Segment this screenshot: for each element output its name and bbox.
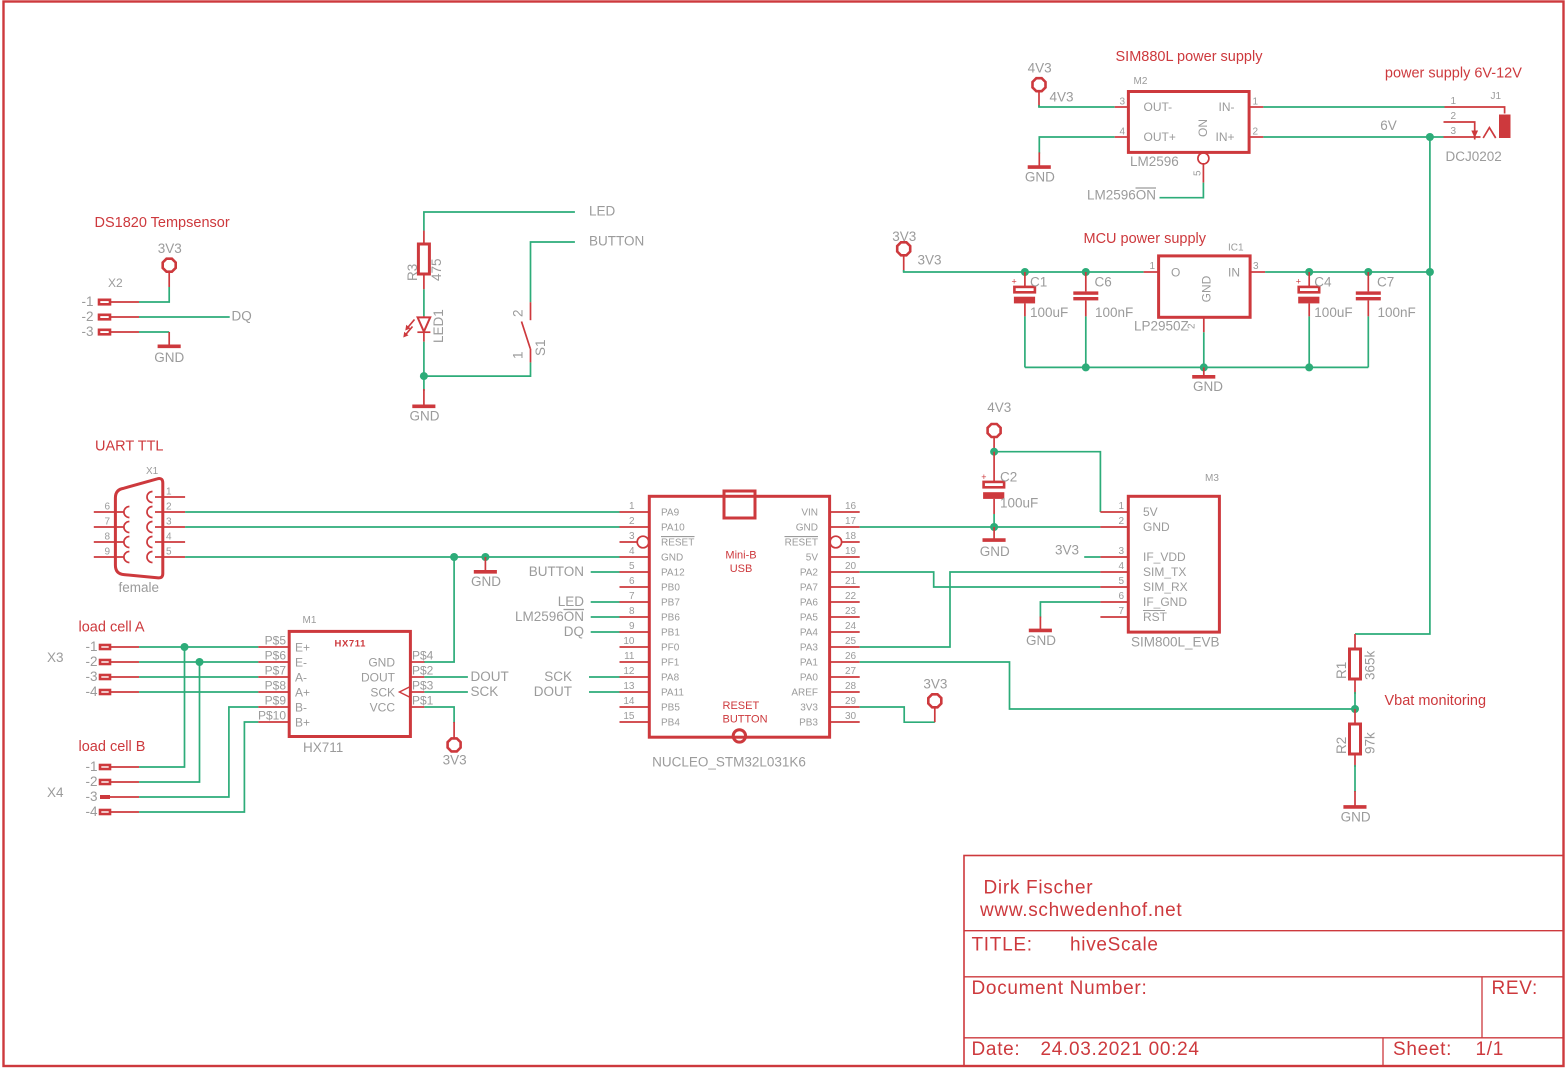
svg-text:475: 475 (429, 258, 444, 281)
svg-text:18: 18 (845, 531, 857, 542)
svg-text:DS1820 Tempsensor: DS1820 Tempsensor (95, 215, 230, 231)
svg-text:P$5: P$5 (265, 634, 287, 648)
svg-text:LED: LED (558, 594, 585, 609)
wire to HX711 GND (424, 557, 454, 662)
svg-text:OUT-: OUT- (1144, 100, 1173, 114)
capacitor C1 100uF (1012, 272, 1069, 320)
ground (C2) (980, 527, 1010, 559)
svg-text:3: 3 (629, 531, 635, 542)
svg-text:PA0: PA0 (800, 673, 819, 684)
U1 pin 11 PF1 (620, 661, 650, 663)
svg-text:GND: GND (1026, 633, 1056, 648)
wire M2 pin5 to LM2596ON (1160, 183, 1204, 198)
MCU module NUCLEO_STM32L031K6 (620, 491, 860, 770)
U1 pin 12 PA8 (620, 676, 650, 678)
svg-text:24: 24 (845, 621, 857, 632)
wire DOUT stub (U1 pin13) (589, 691, 620, 693)
svg-text:3: 3 (1451, 126, 1457, 137)
svg-text:100uF: 100uF (1030, 305, 1068, 320)
U1 pin 20 PA2 (830, 571, 860, 573)
svg-text:PA9: PA9 (661, 508, 680, 519)
svg-text:6: 6 (1118, 591, 1124, 602)
svg-text:C4: C4 (1314, 275, 1332, 290)
capacitor C6 100nF (1073, 272, 1133, 320)
svg-text:PA7: PA7 (800, 583, 819, 594)
svg-text:P$4: P$4 (412, 649, 434, 663)
switch S1 (511, 302, 549, 362)
wire X4-2 up to E- net (139, 662, 199, 782)
svg-text:load cell B: load cell B (79, 739, 146, 755)
svg-text:5V: 5V (1143, 505, 1158, 519)
svg-text:DOUT: DOUT (361, 671, 396, 685)
svg-text:1: 1 (511, 351, 526, 359)
svg-text:Vbat monitoring: Vbat monitoring (1385, 693, 1487, 709)
junction GND/C2 (990, 523, 998, 531)
ground (R2) (1341, 791, 1371, 825)
svg-text:E+: E+ (295, 641, 310, 655)
svg-text:GND: GND (1200, 275, 1214, 302)
ground (M3 IF_GND) (1026, 617, 1056, 649)
ground (IC1) (1192, 367, 1223, 394)
svg-text:7: 7 (104, 517, 110, 528)
connector X4 (47, 759, 139, 819)
svg-text:4V3: 4V3 (1050, 90, 1074, 105)
supply 4V3 (M2) (1028, 61, 1052, 108)
svg-text:Document Number:: Document Number: (972, 978, 1148, 999)
wire R1 to junction (1354, 692, 1356, 709)
svg-text:HX711: HX711 (335, 639, 367, 650)
svg-text:4: 4 (1119, 127, 1125, 138)
svg-text:A+: A+ (295, 686, 310, 700)
svg-text:female: female (119, 580, 160, 595)
svg-text:power supply 6V-12V: power supply 6V-12V (1385, 66, 1522, 82)
M3 pin 6 IF_GND (1100, 601, 1128, 603)
U1 pin 19 5V (830, 556, 860, 558)
svg-text:BUTTON: BUTTON (589, 234, 644, 249)
svg-text:LED: LED (589, 204, 616, 219)
HX711 pin P$10 B+ (258, 721, 289, 723)
junction 4V3/C2 (990, 448, 998, 456)
svg-text:RESET: RESET (723, 700, 760, 712)
svg-text:-4: -4 (85, 804, 97, 819)
J1 pin 1 (1445, 107, 1505, 114)
wire X3-2 to HX711 E- (139, 661, 258, 663)
svg-text:3: 3 (1118, 546, 1124, 557)
junction bottom rail C4 (1305, 363, 1313, 371)
svg-text:R2: R2 (1334, 737, 1349, 754)
svg-text:3V3: 3V3 (918, 253, 942, 268)
svg-text:1: 1 (629, 501, 635, 512)
svg-text:PB5: PB5 (661, 703, 680, 714)
svg-text:P$7: P$7 (265, 664, 287, 678)
svg-text:1: 1 (1253, 97, 1259, 108)
svg-text:+: + (981, 472, 986, 482)
ground (near X1 wire) (471, 557, 501, 589)
svg-text:3V3: 3V3 (443, 753, 467, 768)
wire SCK stub (U1 pin12) (589, 676, 620, 678)
wire X2-2 to DQ (139, 316, 230, 318)
svg-text:27: 27 (845, 666, 857, 677)
IC HX711 M1 (258, 615, 434, 755)
svg-text:J1: J1 (1491, 91, 1502, 102)
svg-text:1: 1 (1118, 501, 1124, 512)
HX711 pin P$4 GND (410, 661, 424, 663)
M3 pin 2 GND (1100, 526, 1128, 528)
svg-text:14: 14 (623, 696, 635, 707)
svg-text:PB6: PB6 (661, 613, 680, 624)
svg-text:GND: GND (1143, 520, 1170, 534)
wire X3-3 to HX711 A- (139, 676, 258, 678)
svg-text:R1: R1 (1334, 662, 1349, 679)
svg-text:DQ: DQ (564, 624, 584, 639)
svg-text:E-: E- (295, 656, 307, 670)
wire DQ stub (U1 pin9) (591, 631, 620, 633)
svg-text:IF_VDD: IF_VDD (1143, 550, 1186, 564)
svg-text:2: 2 (166, 502, 172, 513)
svg-text:22: 22 (845, 591, 857, 602)
wire U1 pin17 GND to M3 pin2 (860, 526, 1101, 528)
svg-text:PA6: PA6 (800, 598, 819, 609)
HX711 pin P$8 A+ (258, 691, 289, 693)
svg-text:-2: -2 (85, 654, 97, 669)
svg-text:DOUT: DOUT (534, 684, 572, 699)
wire BUTTON net (531, 242, 575, 302)
supply 3V3 (HX711) (443, 722, 467, 768)
U1 pin 15 PB4 (620, 721, 650, 723)
U1 pin 2 PA10 (620, 526, 650, 528)
U1 pin 28 AREF (830, 691, 860, 693)
svg-text:-3: -3 (85, 789, 97, 804)
svg-text:2: 2 (1253, 127, 1259, 138)
wire IC1 pin3 to C4/C7 rail (1265, 271, 1430, 273)
wire LED1 to junction (423, 342, 425, 376)
wire C1 to bottom rail (1024, 316, 1026, 367)
svg-text:4V3: 4V3 (1028, 61, 1052, 76)
svg-text:X4: X4 (47, 785, 64, 800)
HX711 pin P$3 SCK clock (410, 691, 424, 693)
svg-text:PA11: PA11 (661, 688, 684, 699)
svg-text:RST: RST (1143, 610, 1168, 624)
wire IC1 pin2 to bottom rail (1203, 332, 1205, 367)
svg-text:GND: GND (471, 574, 501, 589)
wire X3-4 to HX711 A+ (139, 691, 258, 693)
svg-text:12: 12 (623, 666, 635, 677)
svg-text:C2: C2 (1000, 470, 1017, 485)
svg-text:5V: 5V (806, 553, 819, 564)
svg-text:IN-: IN- (1219, 100, 1235, 114)
U1 pin 7 PB7 (620, 601, 650, 603)
svg-text:X2: X2 (108, 276, 123, 290)
M3 pin 7 RST (1100, 616, 1128, 618)
svg-text:LP2950Z: LP2950Z (1134, 319, 1189, 334)
svg-text:2: 2 (1187, 323, 1198, 329)
X1 pin 3 (155, 526, 185, 528)
svg-text:P$1: P$1 (412, 694, 434, 708)
svg-text:A-: A- (295, 671, 307, 685)
svg-text:100nF: 100nF (1378, 305, 1416, 320)
X1 pin 4 (155, 541, 185, 543)
svg-text:13: 13 (623, 681, 635, 692)
wire LED net (424, 212, 575, 231)
svg-text:C1: C1 (1030, 275, 1047, 290)
svg-text:26: 26 (845, 651, 857, 662)
U1 pin 14 PB5 (620, 706, 650, 708)
IC IC1 LP2950Z (1134, 243, 1265, 334)
X1 pin 9 (94, 556, 124, 558)
junction C1 top (1021, 268, 1029, 276)
svg-text:P$8: P$8 (265, 679, 287, 693)
svg-text:IF_GND: IF_GND (1143, 595, 1187, 609)
svg-text:3V3: 3V3 (923, 677, 947, 692)
wire Vbat feed from power rail (1355, 272, 1430, 634)
junction LED/S1/GND (420, 372, 428, 380)
wire X2-1 to 3V3 (139, 287, 169, 302)
M2 pin 2 IN+ (1249, 136, 1263, 138)
IC1 pin 1 O (1144, 271, 1159, 273)
svg-text:PA1: PA1 (800, 658, 819, 669)
svg-text:3V3: 3V3 (892, 229, 916, 244)
LED LED1 (403, 309, 446, 343)
U1 pin 25 PA3 (830, 646, 860, 648)
svg-text:X3: X3 (47, 650, 64, 665)
svg-text:30: 30 (845, 711, 857, 722)
wire R2 to GND (1354, 765, 1356, 792)
svg-text:P$2: P$2 (412, 664, 434, 678)
svg-text:BUTTON: BUTTON (723, 714, 768, 726)
svg-text:DCJ0202: DCJ0202 (1446, 149, 1502, 164)
svg-text:O: O (1171, 266, 1180, 280)
U1 pin 16 VIN (830, 511, 860, 513)
svg-text:+: + (1012, 277, 1017, 287)
wire SCK net (HX711) (424, 691, 468, 693)
junction C7 top (1364, 268, 1372, 276)
svg-text:IN+: IN+ (1215, 130, 1234, 144)
svg-text:IN: IN (1228, 266, 1240, 280)
svg-text:PA8: PA8 (661, 673, 680, 684)
wire U1 pin25 PA3 to SIM_TX (860, 572, 1101, 647)
svg-text:-2: -2 (85, 774, 97, 789)
wire C4 to bottom rail (1308, 316, 1310, 367)
svg-text:PF1: PF1 (661, 658, 680, 669)
wire U1 pin20 PA2 to SIM_RX (860, 572, 1101, 587)
U1 pin 26 PA1 (830, 661, 860, 663)
svg-text:IC1: IC1 (1228, 243, 1244, 254)
svg-text:10: 10 (623, 636, 635, 647)
M3 pin 3 IF_VDD (1100, 556, 1128, 558)
svg-text:LED1: LED1 (431, 309, 446, 343)
svg-text:2: 2 (511, 309, 526, 317)
resistor R3 (405, 231, 444, 290)
USB connector square (724, 491, 755, 518)
svg-text:PA4: PA4 (800, 628, 819, 639)
U1 pin 4 GND (620, 556, 650, 558)
connector X1 DB9 female (94, 466, 185, 595)
wire X3-1 to HX711 E+ (139, 646, 258, 648)
svg-text:GND: GND (980, 544, 1010, 559)
IC M2 LM2596 (1115, 76, 1264, 183)
svg-text:3: 3 (1253, 261, 1259, 272)
svg-text:20: 20 (845, 561, 857, 572)
U1 pin 29 3V3 (830, 706, 860, 708)
svg-text:100uF: 100uF (1314, 305, 1352, 320)
ground (LED/S1) (410, 389, 440, 424)
svg-text:SIM800L_EVB: SIM800L_EVB (1131, 635, 1220, 650)
svg-text:7: 7 (1118, 606, 1124, 617)
wire U1 pin26 PA1 to Vbat (860, 662, 1355, 709)
svg-text:P$6: P$6 (265, 649, 287, 663)
svg-text:-1: -1 (85, 639, 97, 654)
junction bottom rail IC1 (1200, 363, 1208, 371)
U1 pin 3 RESET (620, 541, 638, 543)
M2 pin 3 OUT- (1115, 106, 1129, 108)
svg-text:X1: X1 (146, 466, 159, 477)
svg-text:BUTTON: BUTTON (529, 564, 584, 579)
svg-text:R3: R3 (405, 264, 420, 281)
HX711 pin P$2 DOUT (410, 676, 424, 678)
X1 pin 6 (94, 511, 124, 513)
connector J1 DCJ0202 (1444, 91, 1511, 164)
capacitor C2 100uF (981, 452, 1038, 514)
U1 pin 21 PA7 (830, 586, 860, 588)
wire S1 to GND (423, 376, 425, 391)
svg-text:6: 6 (629, 576, 635, 587)
junction GND net / HX711 (450, 553, 458, 561)
svg-text:28: 28 (845, 681, 857, 692)
svg-text:LM2596ON: LM2596ON (515, 609, 584, 624)
X1 pin 2 (155, 511, 185, 513)
svg-text:C6: C6 (1095, 275, 1112, 290)
M2 pin 5 ON (inverted) (1198, 153, 1209, 164)
svg-text:-1: -1 (81, 294, 93, 309)
junction bottom rail C6 (1082, 363, 1090, 371)
wire X2-3 to GND (139, 331, 169, 333)
X1 pin 5 (155, 556, 185, 558)
svg-text:load cell A: load cell A (79, 620, 145, 636)
svg-text:5: 5 (1118, 576, 1124, 587)
resistor R1 365k (1334, 634, 1378, 694)
svg-text:RESET: RESET (785, 538, 818, 549)
U1 pin 5 PA12 (620, 571, 650, 573)
U1 pin 9 PB1 (620, 631, 650, 633)
svg-text:www.schwedenhof.net: www.schwedenhof.net (979, 900, 1182, 921)
svg-text:DOUT: DOUT (471, 669, 509, 684)
X1 pin 1 (163, 496, 185, 498)
U1 pin 18 RESET (842, 541, 860, 543)
wire U1 pin29 to 3V3 (860, 707, 935, 722)
M2 pin 1 IN- (1249, 106, 1263, 108)
svg-text:8: 8 (104, 532, 110, 543)
svg-text:PB0: PB0 (661, 583, 680, 594)
svg-text:3: 3 (166, 517, 172, 528)
wire 4V3 to M2 OUT- (1039, 105, 1115, 107)
wire C7 to bottom rail (1367, 316, 1369, 367)
svg-text:Dirk Fischer: Dirk Fischer (984, 878, 1094, 899)
svg-text:RESET: RESET (661, 538, 694, 549)
IC1 pin 2 GND (1203, 317, 1205, 332)
svg-text:8: 8 (629, 606, 635, 617)
U1 pin 23 PA5 (830, 616, 860, 618)
svg-text:PF0: PF0 (661, 643, 680, 654)
wire M2 OUT+ to GND (1039, 137, 1114, 154)
capacitor C4 100uF (1296, 272, 1353, 320)
junction C6 top (1082, 268, 1090, 276)
wire C6 to bottom rail (1085, 316, 1087, 367)
svg-text:GND: GND (1025, 170, 1055, 185)
svg-text:+: + (1296, 277, 1301, 287)
junction X3-2/X4-2 (196, 658, 204, 666)
svg-text:SCK: SCK (544, 669, 572, 684)
svg-text:100nF: 100nF (1095, 305, 1133, 320)
wire DOUT net (HX711) (424, 676, 468, 678)
capacitor C7 100nF (1356, 272, 1416, 320)
svg-text:97k: 97k (1363, 732, 1378, 754)
svg-text:B-: B- (295, 701, 307, 715)
junction C4 top (1305, 268, 1313, 276)
svg-text:OUT+: OUT+ (1144, 130, 1176, 144)
U1 pin 6 PB0 (620, 586, 650, 588)
svg-text:GND: GND (1341, 810, 1371, 825)
M2 pin 4 OUT+ (1115, 136, 1129, 138)
wire X1-2 to U1 pin1 (185, 511, 619, 513)
HX711 pin P$5 E+ (258, 646, 289, 648)
svg-text:PA10: PA10 (661, 523, 685, 534)
svg-text:1: 1 (1149, 261, 1155, 272)
wire X4-4 to HX711 B+ (139, 722, 258, 812)
wire LED stub (U1 pin7) (591, 601, 620, 603)
svg-text:GND: GND (1193, 379, 1223, 394)
svg-text:PA3: PA3 (800, 643, 819, 654)
M3 pin 5 SIM_RX (1100, 586, 1128, 588)
svg-text:PB1: PB1 (661, 628, 680, 639)
svg-text:100uF: 100uF (1000, 495, 1038, 510)
U1 pin 13 PA11 (620, 691, 650, 693)
U1 pin 24 PA4 (830, 631, 860, 633)
wire bottom rail (1025, 366, 1368, 368)
svg-text:hiveScale: hiveScale (1070, 935, 1159, 956)
svg-text:19: 19 (845, 546, 857, 557)
wire LM2596ON stub (U1 pin8) (591, 616, 620, 618)
resistor R2 97k (1334, 709, 1378, 767)
svg-text:SIM880L power supply: SIM880L power supply (1116, 49, 1264, 65)
svg-text:Sheet:: Sheet: (1393, 1039, 1452, 1060)
svg-text:SIM_TX: SIM_TX (1143, 565, 1186, 579)
svg-text:1: 1 (166, 487, 172, 498)
svg-text:SCK: SCK (370, 686, 395, 700)
svg-text:USB: USB (730, 563, 753, 575)
svg-text:2: 2 (1118, 516, 1124, 527)
X1 pin 7 (94, 526, 124, 528)
svg-text:365k: 365k (1363, 650, 1378, 680)
wire VCC to 3V3 (424, 707, 454, 723)
svg-text:21: 21 (845, 576, 857, 587)
svg-text:P$10: P$10 (258, 709, 286, 723)
svg-text:6V: 6V (1380, 118, 1397, 133)
wire BUTTON stub (U1 pin5) (591, 571, 620, 573)
svg-text:P$3: P$3 (412, 679, 434, 693)
svg-text:-2: -2 (81, 309, 93, 324)
svg-text:2: 2 (629, 516, 635, 527)
svg-text:3V3: 3V3 (1055, 543, 1079, 558)
svg-text:NUCLEO_STM32L031K6: NUCLEO_STM32L031K6 (652, 755, 806, 770)
svg-text:5: 5 (1193, 170, 1204, 176)
J1 pin 2 (1444, 122, 1475, 131)
svg-text:-3: -3 (81, 324, 93, 339)
svg-text:25: 25 (845, 636, 857, 647)
svg-text:PA12: PA12 (661, 568, 685, 579)
svg-text:GND: GND (661, 553, 683, 564)
ground (X2) (154, 332, 184, 365)
svg-text:MCU power supply: MCU power supply (1084, 231, 1207, 247)
